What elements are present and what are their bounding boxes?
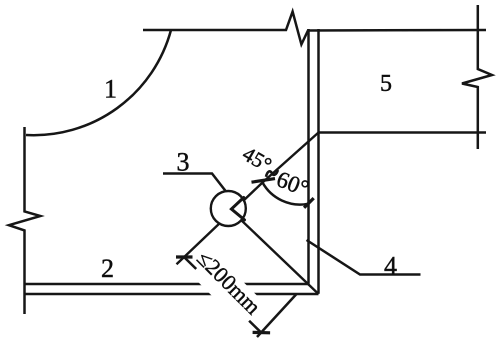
svg-text:3: 3 xyxy=(177,148,190,177)
svg-text:4: 4 xyxy=(384,252,397,281)
svg-text:60°: 60° xyxy=(273,166,312,201)
svg-text:5: 5 xyxy=(380,71,392,97)
svg-text:2: 2 xyxy=(101,254,114,283)
svg-text:1: 1 xyxy=(104,75,117,104)
